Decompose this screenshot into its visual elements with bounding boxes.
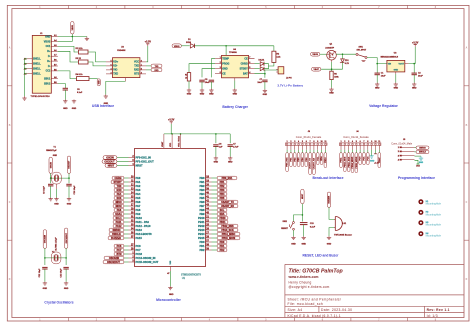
U1 left pin PA1 [111,180,141,184]
svg-text:PB4: PB4 [220,193,225,196]
svg-text:GND: GND [419,162,424,164]
global label VBAT at regulator [312,67,321,71]
svg-text:PC15-OSC32_OUT: PC15-OSC32_OUT [136,260,159,264]
svg-text:ME6211C33M5G-N: ME6211C33M5G-N [381,57,399,59]
svg-text:PA7: PA7 [136,204,141,208]
net label NRST vertical at reset switch [301,189,304,204]
sheet frame column ticks and numbers [39,5,437,321]
ground under C1 [376,83,378,85]
svg-text:OSCOUT: OSCOUT [69,160,71,169]
svg-text:SDA: SDA [219,213,224,216]
svg-text:PA1: PA1 [136,180,141,184]
svg-text:PD2: PD2 [199,248,205,252]
svg-text:PB3: PB3 [199,188,205,192]
junction VBUS [72,36,74,38]
power +3.3V for U2 [147,44,149,46]
wire U1 VSS pin to ground [169,271,171,286]
U1 left pin PA11 [113,220,149,224]
svg-text:File: mcu.kicad_sch: File: mcu.kicad_sch [288,302,324,306]
diode D1 SS34 [181,45,189,47]
svg-text:10uF: 10uF [381,76,386,78]
U1 left pin PA2 [114,184,141,188]
svg-text:OSC32OUT: OSC32OUT [66,232,68,243]
svg-text:PB0_RS1: PB0_RS1 [222,177,233,180]
svg-text:PB15: PB15 [198,236,205,240]
svg-text:CC2: CC2 [46,70,51,73]
svg-text:BAT: BAT [243,73,248,76]
svg-text:R4 5.1k: R4 5.1k [76,73,84,76]
U1 left pin PA13 [109,228,142,232]
svg-text:UD+: UD+ [113,61,118,64]
svg-text:GND: GND [209,94,214,96]
microcontroller U1 STM32G070CBT6 body [135,149,206,267]
svg-text:SWDIO: SWDIO [112,229,120,232]
svg-text:PB6: PB6 [199,200,205,204]
svg-text:Conn_01x04_Male: Conn_01x04_Male [391,143,413,146]
svg-text:GND: GND [327,244,332,246]
U4 pin names [222,58,248,76]
svg-text:PROG: PROG [222,63,229,66]
svg-text:GND: GND [53,155,58,157]
svg-text:Rev: Rev 1.1: Rev: Rev 1.1 [427,308,450,312]
ground under C13 [303,236,305,237]
USB connector J1 left shield wire to ground [25,59,28,74]
wire VBUS to transistor source [320,53,327,55]
svg-text:PA12 - PA10: PA12 - PA10 [136,224,151,228]
svg-text:D-: D- [48,65,51,68]
svg-text:D3,D4: D3,D4 [259,58,266,61]
U2 bottom ground pin [124,78,126,82]
svg-text:VDD: VDD [170,142,172,147]
capacitor C10 10pF [66,183,71,185]
wire transistor drain to switch [336,53,356,55]
wire U4 GND pin3 [202,69,215,78]
svg-text:NRST: NRST [108,164,115,167]
ground under buzzer [328,236,330,237]
svg-text:SWDIO: SWDIO [419,148,426,150]
svg-text:TP4056: TP4056 [229,51,237,54]
svg-text:PB10: PB10 [220,217,227,220]
USB connector J1 left shield pins [24,58,42,76]
ground under C7 [264,89,266,90]
svg-text:PB0_RS1: PB0_RS1 [287,157,289,167]
wire NRST to switch and cap [301,204,303,222]
capacitor C11 10pF [42,266,47,268]
svg-text:GND: GND [329,93,334,95]
svg-text:0.1uF: 0.1uF [77,92,83,94]
transistor gate wire down [331,60,333,62]
svg-text:GND: GND [67,204,72,206]
capacitor C2 10uF at VOUT [413,64,415,73]
U1 left pin PC7 [114,248,141,252]
svg-text:PA8: PA8 [117,209,122,212]
svg-text:GND: GND [169,294,174,296]
svg-text:PA12: PA12 [116,225,122,228]
svg-text:PB12_NSS: PB12_NSS [344,156,346,167]
U1 right pin PB6 [199,200,238,204]
svg-text:+3.3V: +3.3V [168,119,175,122]
wire R4 to ground label [89,78,98,80]
svg-text:PC14-OSC32_IN: PC14-OSC32_IN [136,256,156,260]
svg-text:3.7V Li-Po Battery: 3.7V Li-Po Battery [277,84,303,88]
svg-text:SHELL: SHELL [33,58,41,61]
svg-text:PA9: PA9 [136,212,141,216]
svg-text:OSCIN: OSCIN [106,156,114,159]
wire switch to regulator [367,58,387,64]
svg-text:10uF: 10uF [257,82,262,84]
net label OSCOUT vertical at Y1 [67,156,70,173]
title block outline [285,264,464,317]
svg-text:32.768k 12.5pF: 32.768k 12.5pF [55,236,57,250]
svg-text:VIO: VIO [113,69,117,72]
mounting hole H1 [418,199,423,204]
switch SW2 RESET push button [293,222,295,224]
svg-text:RXD: RXD [134,69,139,72]
wire buzzer to ground [329,228,334,237]
net label OSCIN vertical at Y1 [49,157,52,173]
wire U4 CE right stub [249,58,255,60]
VDD wire bus above MCU [170,124,172,134]
power +3.3V at J5 pin 4 [415,160,419,164]
ground under C5 [64,100,66,101]
svg-text:R3 22: R3 22 [76,58,82,60]
svg-text:VBAT: VBAT [378,157,381,163]
ground under C6 [210,89,212,91]
svg-text:GND: GND [72,108,77,110]
U1 right pin PB8 [199,208,227,212]
ground under C11 [44,282,46,283]
power symbol +3.3V above MCU [170,122,172,124]
svg-text:TXD: TXD [113,73,118,76]
svg-text:GND: GND [99,80,101,85]
svg-text:USART_TX: USART_TX [221,201,234,204]
svg-text:Programming Interface: Programming Interface [398,176,435,180]
wire USB CC1 to resistor R1 [58,46,79,52]
svg-text:SCK: SCK [116,197,121,200]
LED D3 CHRG [255,63,260,65]
svg-text:AO3407P: AO3407P [325,46,334,49]
svg-text:GND: GND [63,108,68,110]
svg-text:GND: GND [412,88,417,90]
wire VDD pin to MCU [171,134,173,148]
U1 left pin PA14-BOOT0 [109,232,152,236]
wire U4 TEMP to ground bus [211,59,215,78]
svg-text:Voltage Regulator: Voltage Regulator [369,104,398,108]
svg-text:RXD: RXD [155,70,160,72]
svg-text:NRST: NRST [136,163,143,167]
U1 right pin PB2 [199,184,227,188]
U1 bottom ground pin VSS [169,267,171,272]
USB connector J1 body [32,35,51,93]
net label TXD [151,64,162,68]
svg-text:PB10: PB10 [325,157,327,163]
svg-text:SHELL: SHELL [33,63,41,66]
connector J3 body and pins [286,143,328,146]
svg-text:PB13_SCK: PB13_SCK [221,229,234,232]
U1 right pin PB14 [198,232,240,236]
USB connector J1 right pins [44,34,58,85]
net label OSC32OUT vertical at Y2 [64,228,67,248]
svg-text:CHRG: CHRG [114,177,121,180]
svg-text:GND: GND [54,204,59,206]
LED D4 STDBY [255,68,260,70]
ground for USB shield [24,96,26,98]
svg-text:Size: A4: Size: A4 [288,308,303,312]
svg-text:USART_TX: USART_TX [309,158,312,170]
svg-text:UD-: UD- [113,65,117,68]
svg-text:SHELL: SHELL [33,72,41,75]
U1 left pin PA5 [114,196,141,200]
resistor R3 22 [79,60,89,64]
svg-text:GND: GND [394,69,399,71]
svg-text:RTS: RTS [134,73,139,76]
svg-text:GND: GND [187,94,192,96]
svg-text:PB5: PB5 [220,197,225,200]
svg-text:OSC32IN: OSC32IN [45,234,47,243]
ground at J5 pin 3 [415,155,422,157]
U1 right pin PB3 [199,188,227,192]
junction at TP4056 VCC [225,45,227,47]
svg-text:Henry Cheung: Henry Cheung [289,281,312,285]
svg-text:TXD: TXD [134,65,139,68]
svg-text:SWCLK: SWCLK [419,152,427,154]
svg-text:PA8: PA8 [136,208,141,212]
svg-text:PB9: PB9 [199,212,205,216]
sheet frame row ticks and letters [7,47,469,282]
svg-text:PB13: PB13 [198,228,205,232]
svg-text:PB12: PB12 [198,224,205,228]
svg-text:VDD_VDDA: VDD_VDDA [178,135,181,147]
svg-text:0.1uF: 0.1uF [310,227,316,229]
svg-text:PA10: PA10 [136,216,143,220]
ground under U3 [395,83,397,85]
svg-text:PB7: PB7 [199,204,205,208]
wire VBAT pin to MCU [163,134,165,148]
svg-text:SHELL: SHELL [33,67,41,70]
capacitor C1 10uF at VIN [376,64,378,73]
ground right of USB connector [86,37,88,39]
ground under U1 [169,286,171,287]
wire VBUS from USB to power label [58,41,72,43]
svg-text:PB12_NSS: PB12_NSS [221,225,234,228]
ground under C5b [201,82,203,89]
wire regulator output to +3.3V [409,47,416,64]
svg-text:CC1: CC1 [46,45,51,48]
svg-text:PD1: PD1 [199,244,205,248]
svg-text:STDBY: STDBY [240,68,249,71]
svg-text:D-: D- [48,55,51,58]
capacitor C4 4.7uF at MCU VDDA [229,134,231,143]
ground for U2 [105,95,107,97]
svg-text:RESET, LED and Buzer: RESET, LED and Buzer [303,253,340,257]
svg-text:PA2: PA2 [136,184,141,188]
svg-text:Microcontroller: Microcontroller [156,298,181,302]
U2 right pins [134,60,146,75]
svg-text:SBU2: SBU2 [44,82,51,85]
U1 right pin PB11 [198,220,228,224]
resistor R1 5.1k [79,50,89,54]
wire Y1 network [50,173,52,183]
U1 right pin PB0 [199,176,237,180]
svg-text:PC6: PC6 [117,245,122,248]
U1 left pin PC15-OSC32_OUT [103,260,159,264]
svg-text:PB14_MISO: PB14_MISO [351,156,354,168]
svg-text:PB0: PB0 [199,176,205,180]
svg-text:OSCOUT: OSCOUT [104,160,115,163]
wire diode to TP4056 and R2 [195,45,274,47]
wire USB CC2 to resistor R4 [58,71,77,79]
svg-text:GND: GND [301,244,306,246]
svg-text:Crystal Oscillators: Crystal Oscillators [44,301,73,305]
capacitor C7 10uF at battery [264,74,266,78]
svg-text:TWT-9605 Buzzer: TWT-9605 Buzzer [334,235,352,237]
svg-text:C11 10pF: C11 10pF [39,268,41,278]
resistor R4 5.1k [77,77,90,81]
capacitor C8 100nF at MCU VDD [215,134,217,143]
U1 right pin PD1 [199,244,227,248]
U1 left pin NRST [105,163,143,167]
svg-text:GND: GND [43,288,48,290]
svg-text:BUZZER: BUZZER [111,237,121,240]
svg-text:6.2V: 6.2V [345,63,350,65]
wire LEDs to R2 bottom [264,62,274,66]
svg-text:MISO: MISO [115,201,121,204]
U1 left pin PA0 [112,176,141,180]
svg-text:CE: CE [222,73,226,76]
U1 left pin PA15 [108,236,142,240]
svg-text:+3.3V: +3.3V [412,42,419,45]
svg-text:PF0-OSC_IN: PF0-OSC_IN [136,155,151,159]
buzzer LS1 TWT-9605 [334,217,336,231]
U4 bottom ground pin [234,78,236,81]
ground under C4 [229,157,231,158]
U4 right pins wires [249,57,255,74]
ground under C8 [215,157,217,158]
svg-text:PC7: PC7 [117,249,122,252]
global label VBUS at regulator [311,52,320,56]
svg-text:STDBY: STDBY [113,181,122,184]
svg-text:PA15: PA15 [136,236,143,240]
svg-text:GND: GND [233,94,238,96]
wire USB GND pin to ground symbol [58,36,87,38]
svg-text:PA4: PA4 [136,192,141,196]
capacitor C9 10pF [48,183,53,185]
svg-text:Id: 1/3: Id: 1/3 [427,314,438,318]
svg-text:VBUS: VBUS [174,46,180,48]
svg-text:STM32G070CBT6: STM32G070CBT6 [181,273,201,276]
svg-text:MOSI: MOSI [115,205,121,208]
svg-text:USART_RX: USART_RX [221,205,234,208]
svg-text:VBUS: VBUS [72,24,74,30]
svg-text:PB15_MOSI: PB15_MOSI [356,156,358,168]
svg-text:PB11: PB11 [220,221,227,224]
svg-text:www.e-tinkers.com: www.e-tinkers.com [288,275,319,279]
svg-text:PA0: PA0 [136,176,141,180]
resistor R7 2k vertical [187,73,190,81]
svg-text:MountingHole: MountingHole [426,224,442,227]
svg-text:J2 PH: J2 PH [286,78,292,80]
U1 right pin PB15 [198,236,240,240]
svg-text:VCC: VCC [134,61,139,64]
USB bridge IC U2 CH340N body [113,58,140,78]
svg-text:+3.3V: +3.3V [145,41,152,44]
net label OSC32IN vertical at Y2 [43,230,46,249]
svg-text:GND: GND [375,88,380,90]
svg-text:SCL: SCL [220,209,225,212]
U1 right pin PB13 [198,228,238,232]
svg-text:SBU1: SBU1 [44,77,51,80]
svg-text:PB14_MISO: PB14_MISO [222,233,236,236]
svg-text:TXD: TXD [155,66,159,68]
U1 left pin PA7 [113,204,141,208]
resistor R2 2.4k vertical [273,46,275,51]
regulator U3 ground pin [395,72,397,74]
U1 right pin PD2 [199,248,227,252]
svg-text:GND: GND [291,244,296,246]
wire USB D+ to resistor R3 [58,51,79,62]
crystal Y1 symbol [52,172,62,184]
svg-text:PC7: PC7 [136,248,142,252]
U1 right pin PB12 [198,224,238,228]
zener diode ZD1 gate protection [342,54,344,59]
svg-text:GND: GND [263,94,268,96]
svg-text:GND: GND [45,35,51,38]
svg-text:PD1: PD1 [220,245,225,248]
wire R1 to CH340 [88,52,106,62]
svg-text:PD0: PD0 [199,240,205,244]
ground under C2 [413,83,415,85]
capacitor C5b 10uF [199,79,204,81]
net label VBUS vertical at USB [71,22,74,35]
svg-text:PB8: PB8 [199,208,205,212]
svg-text:Sheet: /MCU and Peripherals/: Sheet: /MCU and Peripherals/ [288,297,342,301]
U1 left pin PA10 [113,216,142,220]
wire VDDA pin to MCU [180,134,182,148]
svg-text:PA11: PA11 [116,221,122,224]
svg-text:PB2: PB2 [199,184,205,188]
net label BUZZER vertical [327,192,330,207]
svg-text:PD2: PD2 [220,249,225,252]
svg-text:KiCad E.D.A. kicad (6.0.7-1)-: KiCad E.D.A. kicad (6.0.7-1)-1 [288,314,341,318]
svg-text:PB1: PB1 [199,180,205,184]
svg-text:Battery Charger: Battery Charger [222,105,248,109]
svg-text:PD0: PD0 [220,241,225,244]
svg-text:PF1-OSC_OUT: PF1-OSC_OUT [136,159,155,163]
svg-text:CHRG: CHRG [241,63,248,66]
svg-text:BTN: BTN [117,253,122,256]
svg-text:Break-out Interface: Break-out Interface [313,176,344,180]
svg-text:GND: GND [64,288,69,290]
svg-text:RM41/11pF: RM41/11pF [46,149,57,152]
svg-text:MountingHole: MountingHole [426,235,442,238]
svg-text:Date: 2023-04-30: Date: 2023-04-30 [321,308,352,312]
svg-text:Title: G70CB PalmTop: Title: G70CB PalmTop [289,268,343,274]
svg-text:PB15_MOSI: PB15_MOSI [222,237,236,240]
wire U4 PROG to R7 [189,64,215,73]
wire Y1 case to ground [56,184,58,189]
U4 left pins wires [215,57,222,74]
svg-text:@copyright e-tinkers.com: @copyright e-tinkers.com [289,285,330,289]
svg-text:C10 10pF: C10 10pF [74,185,76,195]
wire BUZZER net to buzzer [329,207,334,219]
svg-text:10uF: 10uF [418,76,423,78]
U1 right pin PB9 [199,212,227,216]
ground second under USB [73,100,75,101]
ground under R7 [188,81,190,89]
svg-text:PA11 - PA9: PA11 - PA9 [136,220,150,224]
svg-text:SDA1: SDA1 [115,213,122,216]
svg-text:PC6: PC6 [136,244,142,248]
